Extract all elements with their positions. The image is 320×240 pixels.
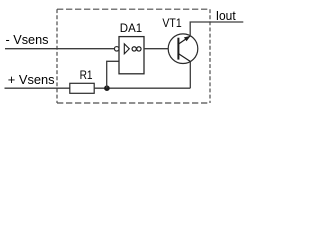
transistor VT1 base bar	[177, 38, 179, 60]
svg-text:VT1: VT1	[162, 16, 182, 30]
wire: lower lead down to bottom rail	[189, 62, 191, 89]
junction node dot	[104, 85, 110, 91]
wire: +Vsens input to R1	[5, 87, 70, 89]
svg-text:DA1: DA1	[120, 21, 143, 35]
svg-text:R1: R1	[80, 68, 93, 82]
module boundary dashed right border	[209, 9, 211, 103]
resistor R1	[70, 83, 94, 93]
transistor VT1 upper lead diagonal	[179, 36, 191, 44]
svg-text:+ Vsens: + Vsens	[8, 72, 55, 87]
svg-text:- Vsens: - Vsens	[6, 32, 49, 47]
wire: junction up to DA1 non-inverting input	[107, 61, 119, 88]
op-amp DA1 inverting input bubble	[114, 47, 119, 52]
wire: R1 to emitter corner	[94, 87, 190, 89]
transistor VT1 arrow on upper lead	[184, 36, 191, 41]
module boundary dashed top border	[57, 8, 210, 10]
wire: upper lead up and right to Iout terminal	[190, 22, 243, 36]
wire: DA1 output to VT1 base	[144, 48, 168, 50]
module boundary dashed left border	[56, 9, 58, 103]
module boundary dashed bottom border	[57, 102, 210, 104]
transistor VT1 body circle	[168, 34, 198, 64]
svg-text:Iout: Iout	[216, 8, 236, 23]
wire: -Vsens input to DA1 inverting bubble	[5, 48, 115, 50]
transistor VT1 lower lead diagonal	[179, 54, 191, 62]
op-amp DA1 body	[119, 37, 144, 74]
op-amp DA1 amplifier triangle	[124, 44, 129, 54]
op-amp DA1 infinite gain symbol	[132, 47, 136, 51]
